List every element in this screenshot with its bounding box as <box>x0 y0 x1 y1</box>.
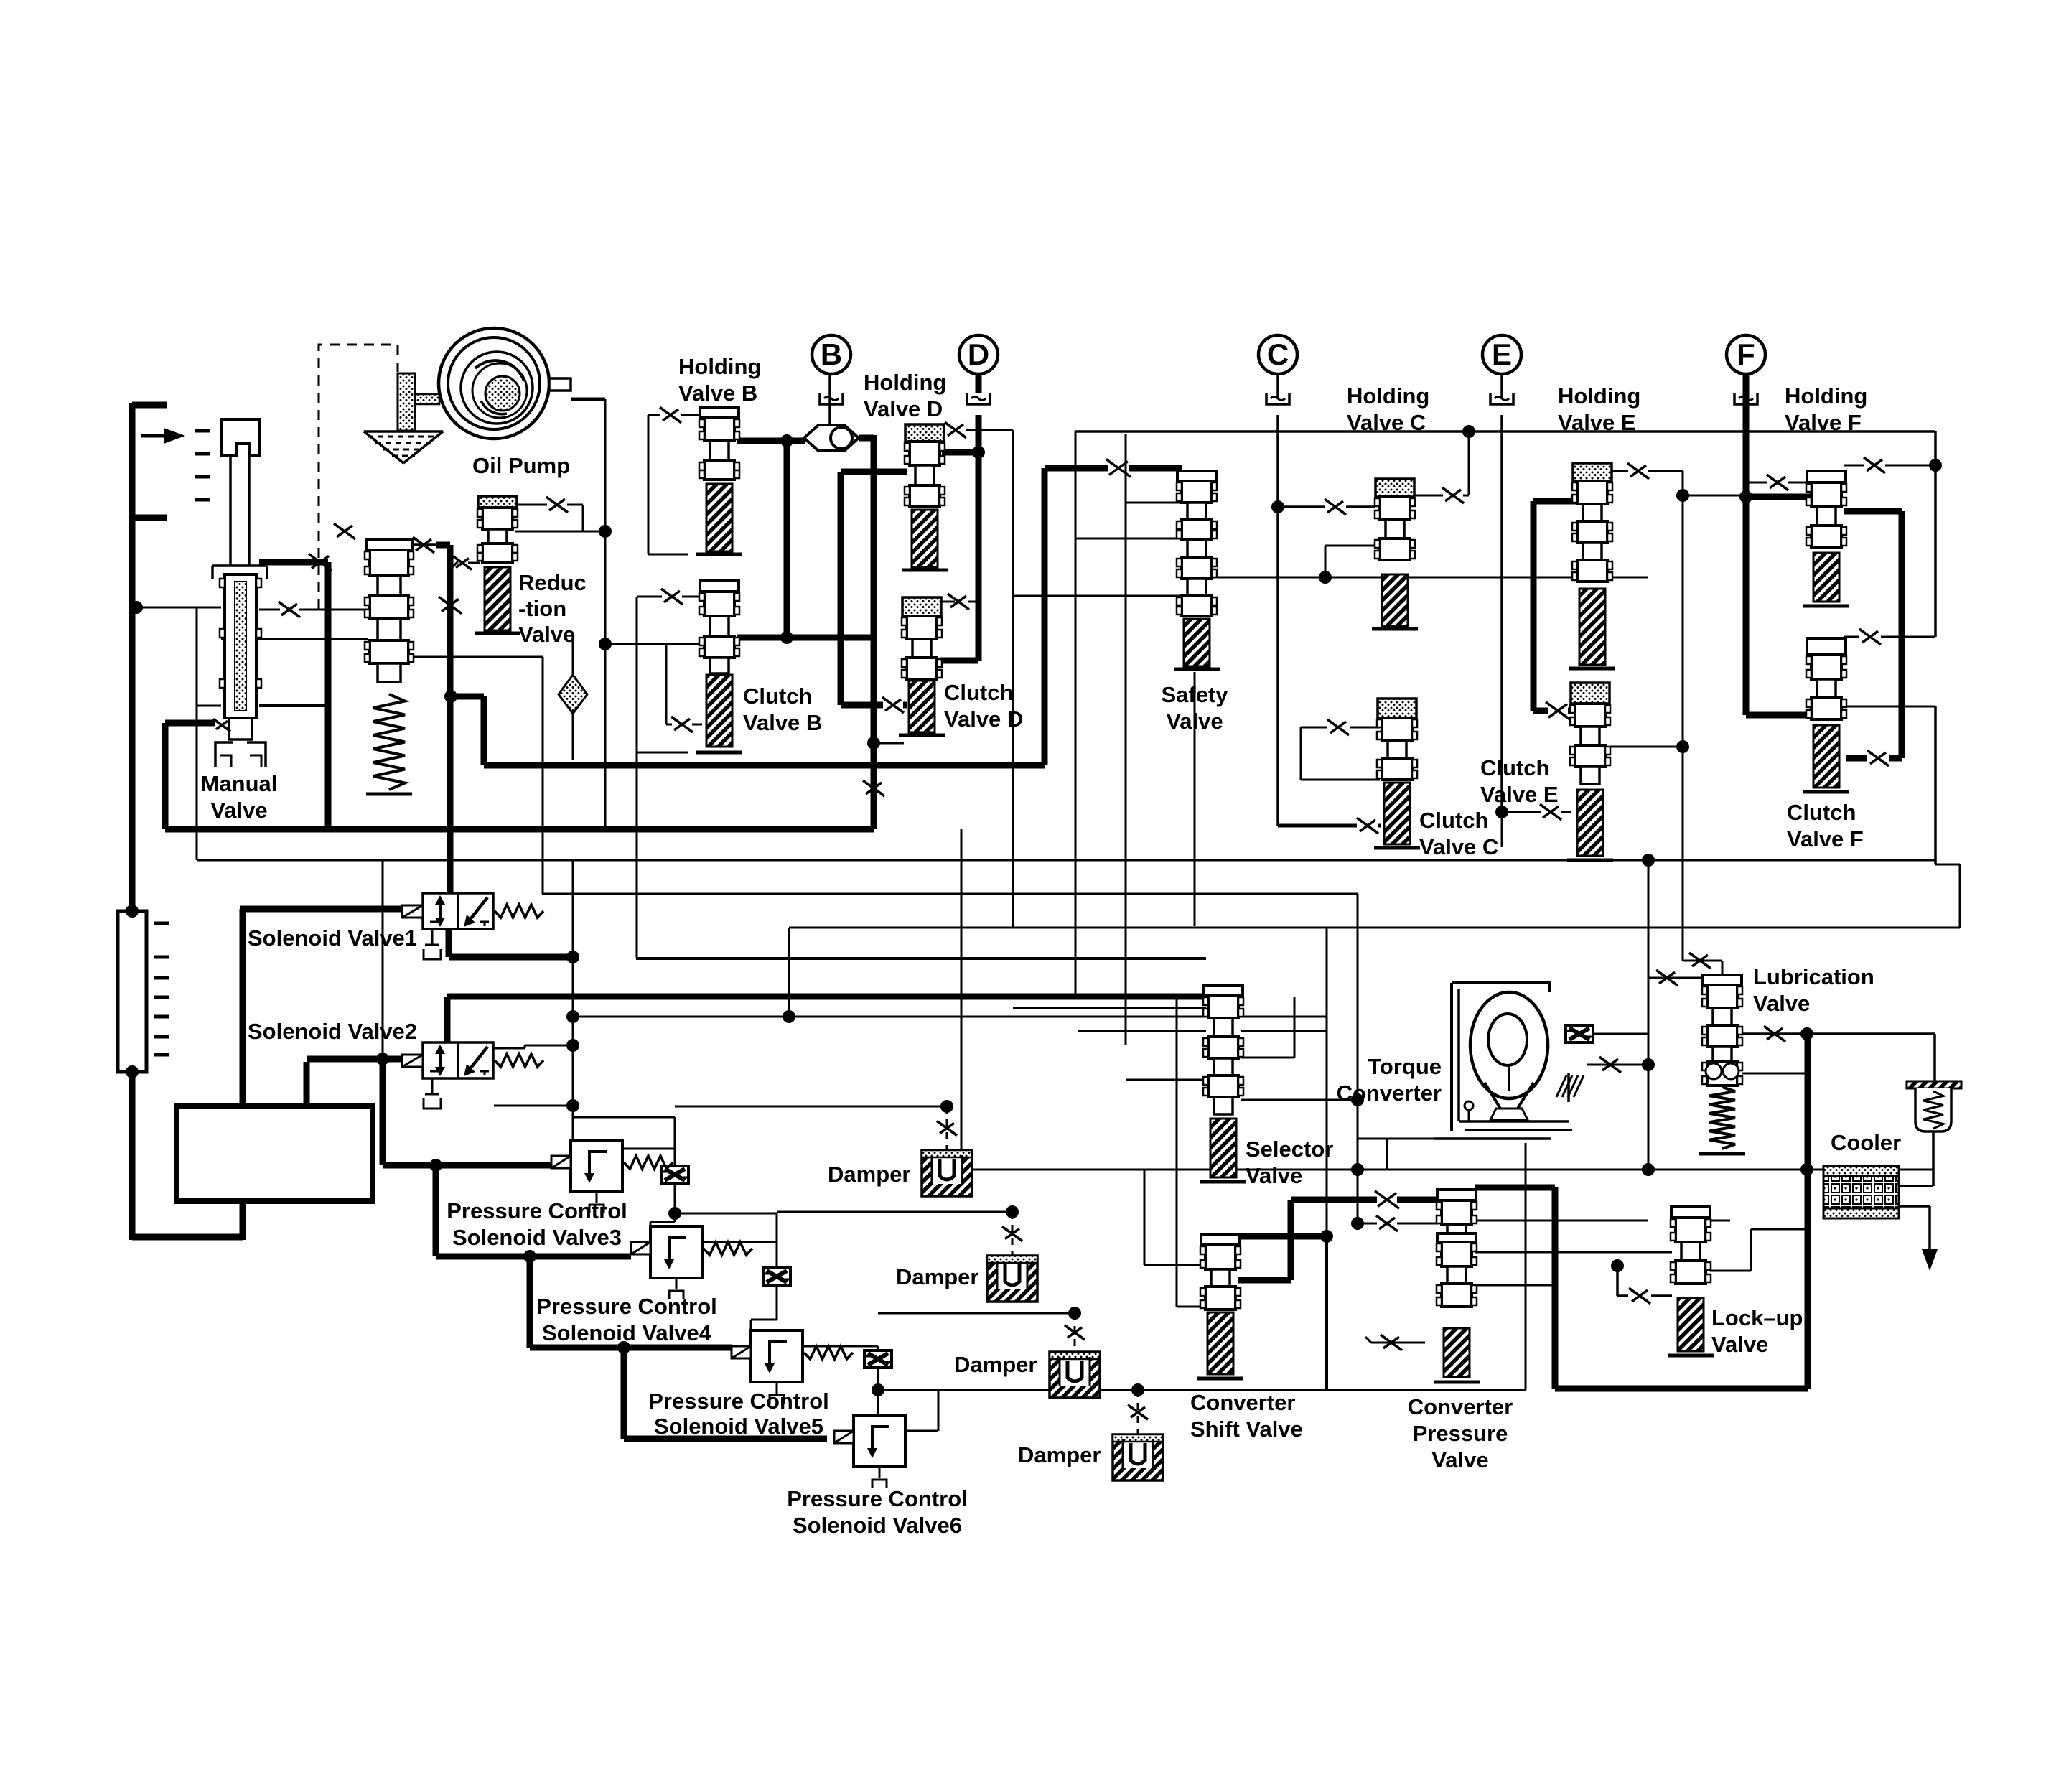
wire lub ball loop <box>1742 1034 1807 1073</box>
wire Solenoid Valve2 feed <box>307 1059 403 1106</box>
node j24 <box>1611 1259 1624 1272</box>
clutch valve D <box>899 597 945 735</box>
wire v1082 PCS4 out <box>675 1213 777 1330</box>
wire CPV right ports <box>1475 1221 1672 1285</box>
holding valve F <box>1803 471 1849 606</box>
node circle D <box>959 335 998 374</box>
solenoid valve 1 <box>402 893 543 959</box>
clutch valve B <box>696 581 742 752</box>
wire reduction right ports <box>515 497 605 531</box>
wire clutch F lower X thick <box>1844 511 1902 766</box>
wire selector right y1436 <box>1241 1030 1327 1032</box>
label Cooler <box>1831 1130 1901 1155</box>
torque converter <box>1434 983 1584 1139</box>
pressure control solenoid valve 4 <box>631 1226 752 1299</box>
label Holding Valve E <box>1558 383 1640 435</box>
node j12 <box>872 1383 884 1396</box>
svg-text:Valve E: Valve E <box>1480 782 1559 807</box>
label Damper 4 <box>1018 1442 1101 1467</box>
manual valve <box>212 419 267 767</box>
node j29 <box>599 638 612 650</box>
pressure regulator valve <box>365 539 414 794</box>
node j6 <box>130 601 143 614</box>
lubrication valve <box>1699 975 1745 1154</box>
strainer dash column top-left <box>195 431 210 500</box>
svg-text:D: D <box>968 337 989 371</box>
node j18 <box>1642 1163 1655 1176</box>
svg-text:Valve: Valve <box>1431 1447 1488 1473</box>
wire safety right out <box>1213 577 1648 579</box>
wire lockup right <box>1710 1229 1808 1271</box>
clutch valve E <box>1567 683 1613 860</box>
node j20 <box>1351 1093 1364 1106</box>
wire clutch F right loop <box>1846 706 1935 708</box>
svg-text:Valve E: Valve E <box>1558 410 1636 435</box>
wire bus y600 <box>1075 431 1935 997</box>
wire bus y1629 <box>961 1169 1933 1171</box>
svg-text:Holding: Holding <box>864 370 946 395</box>
tank below F <box>1734 393 1757 404</box>
wire to safety valve with orifice <box>1045 465 1182 472</box>
svg-text:F: F <box>1737 337 1755 371</box>
node j2 <box>780 631 793 644</box>
wire holding B out right <box>737 438 805 444</box>
wire clutch C left X <box>1301 719 1380 780</box>
wire selector right y1532 <box>1241 1099 1358 1101</box>
svg-text:Holding: Holding <box>1785 383 1867 409</box>
wire reduction left arrow <box>452 556 480 570</box>
wire SV2 loop <box>494 1045 573 1106</box>
node j23 <box>1351 1217 1364 1230</box>
svg-text:Valve F: Valve F <box>1787 826 1864 851</box>
wire clutch B left mid <box>605 644 702 732</box>
svg-text:Valve: Valve <box>1166 709 1223 734</box>
wire clutch D right X <box>940 594 978 610</box>
wire X on dashed top <box>334 523 355 539</box>
wire bus y1541 <box>675 1106 947 1108</box>
wire E to holding E <box>1533 498 1576 505</box>
wire bus y1198 <box>197 854 1935 978</box>
node j13 <box>1131 1383 1144 1396</box>
damper 1 <box>922 1106 972 1196</box>
wire holding B drop <box>784 441 790 638</box>
wire regulator right fb <box>411 656 543 658</box>
wire check valve to D trunk <box>859 435 874 442</box>
node orifice box pcs3 <box>661 1166 688 1183</box>
cooler <box>1823 1166 1899 1218</box>
damper 3 <box>1050 1313 1100 1398</box>
wire lub top X <box>1683 953 1722 975</box>
node j28 <box>867 737 880 750</box>
wire CSV to conv pressure valve <box>1238 1200 1439 1280</box>
wire ECU top to Solenoid Valve1 feed <box>240 909 403 1109</box>
wire D circle trunk <box>976 415 982 661</box>
wire holding F left X <box>1746 475 1935 645</box>
wire v798 <box>572 860 574 1142</box>
svg-text:Clutch: Clutch <box>1480 755 1549 780</box>
svg-text:B: B <box>821 337 842 371</box>
wire clutch B right thick <box>737 635 875 641</box>
wire clutch E right port <box>1610 740 1689 753</box>
svg-text:Pressure Control: Pressure Control <box>447 1198 627 1223</box>
wire TC out right <box>1571 1033 1648 1035</box>
node circle C <box>1258 335 1297 374</box>
node j9 <box>566 1039 579 1052</box>
clutch valve C <box>1374 699 1420 848</box>
node j27 <box>1319 571 1332 584</box>
node j22 <box>1800 1027 1813 1040</box>
node j15 <box>1006 1205 1019 1218</box>
wire D to holding D <box>942 449 978 456</box>
holding valve D <box>902 424 948 570</box>
label Damper 2 <box>896 1264 978 1289</box>
wire csv left ports <box>1144 997 1205 1307</box>
node j17 <box>1351 1163 1364 1176</box>
label Holding Valve D <box>864 370 946 421</box>
wire CPV bottom X <box>1365 1335 1425 1350</box>
label Holding Valve B <box>678 354 761 406</box>
node j5 <box>1462 425 1942 472</box>
wire manual valve drain thick <box>165 435 874 829</box>
wire Solenoid Valve1 output <box>449 928 573 957</box>
svg-text:Valve F: Valve F <box>1785 410 1862 435</box>
svg-text:Lock–up: Lock–up <box>1711 1305 1803 1330</box>
svg-text:Reduc: Reduc <box>518 570 587 595</box>
wire manual right lower <box>259 554 332 829</box>
svg-text:Solenoid Valve5: Solenoid Valve5 <box>654 1414 823 1439</box>
node j30 <box>599 525 612 538</box>
svg-text:Converter: Converter <box>1190 1390 1295 1415</box>
label Clutch Valve C <box>1419 808 1498 859</box>
label Holding Valve F <box>1785 383 1867 435</box>
wire F circle trunk <box>1743 377 1750 715</box>
node orifice CPV feed <box>1375 1191 1399 1209</box>
wire CPV second feed <box>1358 1215 1439 1231</box>
wire F to holding F <box>1746 494 1810 500</box>
wire bus y1416 <box>573 1016 1327 1018</box>
node junction PCS3 drop <box>429 1159 442 1172</box>
node j19 <box>1800 1163 1813 1176</box>
wire regulator top X <box>411 537 462 892</box>
wire pump outlet <box>571 398 605 401</box>
svg-text:Solenoid Valve1: Solenoid Valve1 <box>248 925 417 951</box>
label Clutch Valve E <box>1480 755 1559 807</box>
label Converter Pressure Valve <box>1408 1394 1513 1473</box>
wire lockup enclosure thick <box>1475 1034 1808 1389</box>
wire v886 <box>636 597 638 958</box>
node orifice safety feed <box>1106 459 1131 477</box>
holding valve E <box>1569 463 1615 668</box>
svg-text:Solenoid Valve3: Solenoid Valve3 <box>452 1225 622 1250</box>
svg-text:Holding: Holding <box>678 354 761 379</box>
ECU control unit block <box>177 1106 373 1201</box>
tank below B <box>820 393 843 404</box>
node filter bottom <box>126 1065 139 1078</box>
wire bus y1688 <box>777 1211 1012 1213</box>
svg-text:Clutch: Clutch <box>1787 800 1856 825</box>
node j16 <box>1068 1307 1081 1320</box>
label Holding Valve C <box>1347 383 1429 435</box>
svg-text:Damper: Damper <box>1018 1442 1101 1467</box>
tank below C <box>1266 393 1289 404</box>
node junction PCS5 drop <box>617 1341 630 1354</box>
wire B circle drop <box>828 374 831 426</box>
wire CSV top port <box>1235 1230 1333 1243</box>
label Converter Shift Valve <box>1190 1390 1303 1442</box>
svg-text:Pressure Control: Pressure Control <box>648 1389 829 1414</box>
cooler relief valve <box>1907 1081 1961 1131</box>
wire C to holding C <box>1278 499 1375 515</box>
clutch valve F <box>1803 638 1849 792</box>
wire holding E right X <box>1610 463 1746 961</box>
pressure control solenoid valve 3 <box>551 1140 673 1213</box>
svg-text:-tion: -tion <box>518 596 566 621</box>
svg-text:C: C <box>1267 337 1289 371</box>
svg-text:Valve: Valve <box>1753 991 1810 1016</box>
wire bottom L to ECU <box>132 1201 243 1240</box>
wire E to clutch E X <box>1502 804 1571 820</box>
converter shift valve <box>1197 1234 1243 1378</box>
wire bus y601 right border <box>1934 431 1937 864</box>
node j25 <box>1271 500 1284 513</box>
wire F circle drop <box>1743 374 1750 399</box>
node j21 <box>1642 1058 1655 1071</box>
wire lockup left X <box>1617 1266 1672 1304</box>
label PCS3 <box>447 1198 627 1250</box>
label PCS6 <box>787 1486 968 1538</box>
wire safety left ports <box>1013 503 1182 596</box>
svg-text:Valve: Valve <box>210 798 267 823</box>
svg-text:Shift Valve: Shift Valve <box>1190 1417 1303 1442</box>
wire lockup top port <box>1710 1220 1730 1222</box>
svg-text:Converter: Converter <box>1337 1081 1442 1106</box>
wire C bottom to clutch C <box>1278 818 1381 834</box>
label PCS5 <box>648 1389 829 1439</box>
node inflow arrow <box>141 428 185 444</box>
svg-text:Converter: Converter <box>1408 1394 1513 1419</box>
wire SV2 branch down to PCS row <box>383 1059 436 1165</box>
svg-text:Pressure Control: Pressure Control <box>536 1294 717 1319</box>
wire v1414 <box>1012 430 1014 928</box>
node junction PCS4 drop <box>523 1250 536 1263</box>
svg-text:Valve C: Valve C <box>1419 834 1498 859</box>
wire holding C right X <box>1414 431 1469 503</box>
node circle E <box>1482 335 1521 374</box>
wire E circle drop <box>1500 374 1503 812</box>
label Reduction Valve <box>518 570 587 647</box>
wire v1223 PCS5 out <box>803 1346 878 1415</box>
node j7 <box>566 1010 579 1023</box>
wire D circle drop <box>976 374 982 393</box>
wire holding C left drop <box>1325 546 1375 577</box>
svg-text:Pressure Control: Pressure Control <box>787 1486 968 1511</box>
node j8 <box>783 1010 795 1023</box>
svg-text:Valve B: Valve B <box>743 710 822 735</box>
svg-text:Manual: Manual <box>201 771 278 796</box>
wire C circle drop <box>1276 374 1279 826</box>
node orifice box pcs4 <box>763 1268 790 1285</box>
svg-text:Valve: Valve <box>1711 1332 1768 1357</box>
svg-text:Pressure: Pressure <box>1413 1421 1508 1446</box>
wire lub right out <box>1742 1026 1935 1042</box>
damper 4 <box>1113 1390 1163 1480</box>
svg-text:Holding: Holding <box>1558 383 1640 409</box>
wire holding F right X <box>1844 457 1935 473</box>
reduction valve <box>475 496 520 633</box>
svg-text:Solenoid Valve4: Solenoid Valve4 <box>542 1320 712 1345</box>
wire pcs6 out <box>878 1390 938 1431</box>
svg-text:Selector: Selector <box>1246 1137 1333 1162</box>
wire F to clutch F <box>1746 712 1808 719</box>
svg-text:Valve C: Valve C <box>1347 410 1426 435</box>
svg-text:Clutch: Clutch <box>1419 808 1488 833</box>
node circle B <box>812 335 851 374</box>
svg-text:Solenoid Valve6: Solenoid Valve6 <box>793 1513 962 1538</box>
label Oil Pump <box>472 453 570 478</box>
label Lubrication Valve <box>1753 964 1874 1016</box>
wire v843 pump branch <box>604 399 607 829</box>
label PCS4 <box>536 1294 717 1345</box>
filter left strainer <box>118 911 169 1072</box>
wire TC bottom pipes <box>1358 1139 1434 1170</box>
svg-text:Valve B: Valve B <box>678 381 757 406</box>
label Clutch Valve D <box>944 680 1023 732</box>
wire bus y1335 thin <box>636 957 1206 960</box>
svg-text:Lubrication: Lubrication <box>1753 964 1874 989</box>
wire relief to cooler <box>1899 1131 1933 1186</box>
wire left top stub <box>132 402 167 409</box>
wire v1848 <box>1326 928 1328 1390</box>
wire E trunk thick <box>1531 501 1537 711</box>
wire clutch B top X <box>637 589 702 752</box>
label Solenoid Valve1 <box>248 925 417 951</box>
svg-text:E: E <box>1492 337 1512 371</box>
wire v1664 <box>1194 672 1196 926</box>
wire drop to PCS5 <box>530 1256 732 1348</box>
wire bus y1245 <box>542 657 1358 945</box>
wire clutch D bottom X <box>841 472 907 796</box>
label Damper 3 <box>954 1352 1037 1377</box>
wire main left supply vertical <box>129 403 136 1240</box>
wire TC x line <box>1587 1057 1648 1073</box>
node circle F <box>1727 335 1765 374</box>
wire D to clutch D <box>940 658 978 664</box>
wire v1099 <box>789 864 1960 1017</box>
label Solenoid Valve2 <box>248 1019 417 1044</box>
svg-text:Holding: Holding <box>1347 383 1429 409</box>
wire left mid stub <box>132 515 167 521</box>
node j4 <box>1739 490 1752 503</box>
oil pump <box>439 328 571 439</box>
svg-text:Clutch: Clutch <box>944 680 1013 705</box>
wire clutch D left <box>874 742 904 745</box>
oil pump strainer channel <box>398 373 439 431</box>
wire bus y1829 <box>878 1312 1075 1315</box>
filter diamond <box>559 633 587 760</box>
node j11 <box>668 1207 681 1220</box>
damper 2 <box>987 1212 1037 1302</box>
wire v1339 <box>961 829 963 1170</box>
wire selector feed thick <box>447 997 1206 1042</box>
wire drop to PCS6 <box>624 1348 827 1439</box>
node j14 <box>940 1100 953 1113</box>
svg-text:Valve D: Valve D <box>864 396 943 421</box>
label Selector Valve <box>1246 1137 1333 1188</box>
label Safety Valve <box>1161 682 1228 734</box>
svg-text:Valve D: Valve D <box>944 706 1023 732</box>
label Lock-up Valve <box>1711 1305 1803 1357</box>
node j1 <box>780 434 793 447</box>
label Damper 1 <box>828 1162 910 1187</box>
svg-text:Safety: Safety <box>1161 682 1228 707</box>
svg-text:Valve: Valve <box>518 622 575 647</box>
wire bus y1936 <box>878 1143 1526 1390</box>
label Manual Valve <box>201 771 278 823</box>
holding valve B <box>696 408 742 554</box>
wire selector left ports <box>1013 1008 1206 1080</box>
tank below D <box>967 393 990 404</box>
wire PCS3 feed <box>436 1162 551 1169</box>
safety valve <box>1174 471 1220 669</box>
svg-text:Cooler: Cooler <box>1831 1130 1901 1155</box>
wire v1568 <box>1125 434 1127 1045</box>
pressure control solenoid valve 6 <box>834 1415 905 1488</box>
wire dashed pilot box <box>319 345 398 610</box>
lock-up valve <box>1668 1206 1714 1355</box>
wire regulator left ports <box>221 602 368 639</box>
wire manual valve left loop <box>136 607 221 860</box>
pressure control solenoid valve 5 <box>732 1330 853 1404</box>
node j3 <box>972 446 985 459</box>
node orifice box pcs5 <box>864 1350 892 1368</box>
converter pressure valve <box>1434 1190 1480 1382</box>
svg-text:Solenoid Valve2: Solenoid Valve2 <box>248 1019 417 1044</box>
svg-text:Oil Pump: Oil Pump <box>472 453 570 478</box>
oil pump suction funnel <box>364 431 443 463</box>
wire cooler out arrow <box>1899 1206 1938 1271</box>
wire drop to PCS4 <box>436 1165 631 1256</box>
wire selector right y1473 <box>1241 997 1294 1058</box>
wire E to clutch E <box>1533 702 1571 720</box>
wire v2296 <box>1648 978 1650 1170</box>
node orifice box tc <box>1566 1025 1593 1042</box>
wire regulator drain <box>450 468 1045 765</box>
selector valve <box>1200 986 1246 1182</box>
svg-text:Torque: Torque <box>1368 1054 1442 1079</box>
solenoid valve 2 <box>402 1042 543 1109</box>
node filter top <box>126 905 139 918</box>
check valve near B <box>804 425 859 451</box>
svg-text:Damper: Damper <box>828 1162 910 1187</box>
svg-text:Damper: Damper <box>954 1352 1037 1377</box>
wire v1891 <box>1357 894 1359 1223</box>
svg-text:Clutch: Clutch <box>743 683 812 709</box>
wire clutch E bottom X <box>1501 812 1503 847</box>
wire relief feed <box>1933 1034 1936 1081</box>
svg-text:Valve: Valve <box>1246 1163 1302 1188</box>
tank below E <box>1490 393 1513 404</box>
wire holding D right X <box>942 422 1013 438</box>
label Clutch Valve B <box>743 683 822 735</box>
svg-text:Damper: Damper <box>896 1264 978 1289</box>
node j26 <box>1495 806 1508 818</box>
wire v940 PCS3 out <box>573 1117 675 1226</box>
label Clutch Valve F <box>1787 800 1864 851</box>
wire holding B left X <box>648 407 702 554</box>
holding valve C <box>1372 479 1418 629</box>
node junction SV2 feed <box>376 860 389 1065</box>
wire to lubrication valve <box>1648 970 1703 986</box>
